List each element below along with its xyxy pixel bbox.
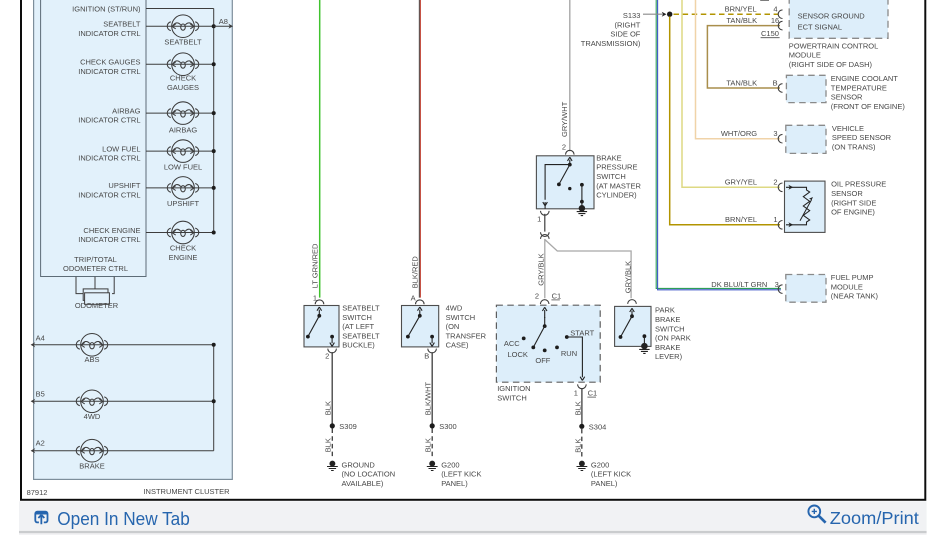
lamp SEATBELT bbox=[167, 15, 199, 38]
svg-text:GROUND: GROUND bbox=[342, 460, 376, 469]
svg-text:1: 1 bbox=[574, 389, 578, 398]
svg-text:B5: B5 bbox=[36, 390, 45, 399]
svg-text:S300: S300 bbox=[439, 422, 457, 431]
node airbag bus junction bbox=[212, 111, 216, 115]
svg-text:LEVER): LEVER) bbox=[655, 352, 683, 361]
wire TAN/BLK PCM pin 16 to ECT sensor pin B bbox=[707, 26, 780, 88]
svg-text:A: A bbox=[411, 293, 416, 302]
instrument cluster box bbox=[34, 0, 233, 479]
svg-text:CHECK GAUGES: CHECK GAUGES bbox=[80, 58, 140, 67]
svg-text:Zoom/Print: Zoom/Print bbox=[830, 508, 919, 528]
inline connector arcs bbox=[541, 232, 550, 239]
lamp ABS bbox=[76, 334, 108, 357]
svg-text:FUEL PUMP: FUEL PUMP bbox=[831, 273, 874, 282]
svg-text:(RIGHT SIDE OF DASH): (RIGHT SIDE OF DASH) bbox=[789, 60, 873, 69]
pin 2 ignition switch and C1 bbox=[535, 291, 561, 300]
wire right bus abs-brake bbox=[213, 345, 215, 451]
wire check gauges row bbox=[146, 63, 214, 65]
wire seatbelt row bbox=[146, 25, 214, 27]
pin A2 input arrow bbox=[31, 439, 45, 454]
svg-text:(AT MASTER: (AT MASTER bbox=[596, 181, 641, 190]
svg-text:MODULE: MODULE bbox=[789, 51, 821, 60]
svg-text:4: 4 bbox=[773, 5, 777, 14]
connector arc seatbelt switch top bbox=[315, 300, 324, 304]
lamp LOW FUEL bbox=[167, 140, 199, 163]
svg-text:PARK: PARK bbox=[655, 306, 675, 315]
wire 4wd row bbox=[32, 400, 214, 402]
svg-text:ACC: ACC bbox=[504, 339, 520, 348]
wire S133 leader arrow bbox=[643, 12, 667, 17]
fuel pump module box bbox=[786, 275, 826, 303]
svg-text:SEATBELT: SEATBELT bbox=[342, 331, 380, 340]
odometer symbol bbox=[76, 277, 114, 305]
svg-text:ENGINE: ENGINE bbox=[169, 253, 198, 262]
wire low fuel row bbox=[146, 150, 214, 152]
svg-text:3: 3 bbox=[775, 280, 779, 289]
label POWERTRAIN CONTROL MODULE (RIGHT SIDE OF DASH) bbox=[789, 41, 878, 69]
label G200 (LEFT KICK PANEL) bbox=[591, 460, 631, 488]
svg-text:ODOMETER CTRL: ODOMETER CTRL bbox=[63, 264, 128, 273]
lamp CHECK ENGINE bbox=[167, 221, 199, 244]
svg-text:C150: C150 bbox=[761, 29, 779, 38]
connector arc oil sensor pin 2 bbox=[778, 183, 782, 192]
case ground brake pressure switch bbox=[577, 206, 587, 216]
label GROUND (NO LOCATION AVAILABLE) bbox=[342, 460, 396, 488]
svg-text:RUN: RUN bbox=[561, 349, 577, 358]
node S300 bbox=[430, 423, 435, 428]
wire GRY/WHT vertical bbox=[569, 0, 571, 151]
svg-text:BRAKE: BRAKE bbox=[79, 461, 104, 470]
park brake switch PARK BRAKE SWITCH bbox=[615, 306, 651, 346]
zoom/print magnifier icon bbox=[808, 506, 825, 523]
svg-text:A8: A8 bbox=[219, 17, 228, 26]
label S133 (RIGHT SIDE OF TRANSMISSION) bbox=[581, 11, 641, 48]
svg-text:2: 2 bbox=[562, 143, 566, 152]
svg-text:S304: S304 bbox=[589, 422, 607, 431]
connector arc VSS pin 3 bbox=[778, 134, 782, 143]
wire GRY/YEL to oil pressure sensor pin 2 bbox=[682, 0, 780, 187]
lamp AIRBAG bbox=[167, 102, 199, 125]
svg-text:A2: A2 bbox=[36, 439, 45, 448]
node abs bus junction bbox=[212, 343, 216, 347]
toolbar bbox=[19, 501, 927, 534]
svg-text:CASE): CASE) bbox=[446, 341, 469, 350]
svg-text:(LEFT KICK: (LEFT KICK bbox=[441, 470, 481, 479]
seatbelt switch SEATBELT SWITCH bbox=[304, 306, 339, 347]
svg-text:GAUGES: GAUGES bbox=[167, 83, 199, 92]
open-in-new-tab icon bbox=[35, 512, 47, 525]
svg-text:ENGINE COOLANT: ENGINE COOLANT bbox=[831, 74, 899, 83]
wire airbag row bbox=[146, 112, 214, 114]
ground G200 left bbox=[427, 461, 438, 470]
svg-text:TRANSFER: TRANSFER bbox=[446, 331, 487, 340]
svg-text:Open In New Tab: Open In New Tab bbox=[57, 508, 190, 529]
connector arc ECT pin B bbox=[778, 84, 782, 93]
instrument cluster controller inner box bbox=[41, 0, 146, 277]
connector arc PCM pin 4 bbox=[778, 10, 782, 19]
svg-text:INDICATOR CTRL: INDICATOR CTRL bbox=[78, 116, 140, 125]
node S309 bbox=[330, 423, 335, 428]
pin B5 input arrow bbox=[31, 390, 45, 404]
svg-text:UPSHIFT: UPSHIFT bbox=[108, 181, 141, 190]
svg-text:BRAKE: BRAKE bbox=[655, 343, 680, 352]
svg-text:TAN/BLK: TAN/BLK bbox=[726, 78, 757, 87]
connector label C150 bbox=[761, 29, 780, 38]
svg-text:CHECK: CHECK bbox=[170, 74, 196, 83]
svg-text:GRY/BLK: GRY/BLK bbox=[537, 253, 546, 285]
svg-text:TEMPERATURE: TEMPERATURE bbox=[831, 83, 887, 92]
svg-text:TAN/BLK: TAN/BLK bbox=[726, 16, 757, 25]
svg-text:WHT/ORG: WHT/ORG bbox=[721, 129, 757, 138]
label FUEL PUMP MODULE (NEAR TANK) bbox=[831, 273, 879, 301]
wire BRN/YEL to oil pressure sensor pin 1 bbox=[670, 17, 780, 225]
svg-text:LT GRN/RED: LT GRN/RED bbox=[311, 243, 320, 288]
svg-text:BLK: BLK bbox=[424, 438, 433, 452]
svg-text:2: 2 bbox=[773, 178, 777, 187]
svg-text:OFF: OFF bbox=[535, 356, 550, 365]
svg-text:C1: C1 bbox=[552, 291, 562, 300]
svg-text:IGNITION: IGNITION bbox=[497, 384, 530, 393]
connector arc oil sensor pin 1 bbox=[778, 221, 782, 230]
brake pressure switch BRAKE PRESSURE SWITCH bbox=[536, 156, 594, 209]
svg-text:(NO LOCATION: (NO LOCATION bbox=[342, 470, 396, 479]
node S133 splice bbox=[667, 12, 672, 17]
svg-text:SWITCH: SWITCH bbox=[342, 313, 372, 322]
wire abs row bbox=[32, 344, 214, 346]
svg-text:CHECK: CHECK bbox=[170, 244, 196, 253]
svg-text:BLK/RED: BLK/RED bbox=[411, 256, 420, 289]
svg-text:4WD: 4WD bbox=[446, 304, 463, 313]
svg-text:(ON PARK: (ON PARK bbox=[655, 334, 691, 343]
svg-text:BRAKE: BRAKE bbox=[655, 315, 680, 324]
oil pressure sensor box bbox=[785, 181, 826, 232]
svg-text:SWITCH: SWITCH bbox=[655, 324, 685, 333]
ignition switch box IGNITION SWITCH bbox=[496, 305, 600, 382]
svg-text:B: B bbox=[424, 352, 429, 361]
lamp 4WD bbox=[76, 390, 108, 413]
svg-text:OIL PRESSURE: OIL PRESSURE bbox=[831, 180, 886, 189]
svg-text:1: 1 bbox=[537, 214, 541, 223]
lamp BRAKE bbox=[76, 439, 108, 462]
svg-text:(FRONT OF ENGINE): (FRONT OF ENGINE) bbox=[831, 102, 906, 111]
svg-text:MODULE: MODULE bbox=[831, 282, 863, 291]
svg-text:GRY/WHT: GRY/WHT bbox=[560, 101, 569, 137]
svg-text:(ON TRANS): (ON TRANS) bbox=[832, 143, 876, 152]
connector arc brake pressure switch top bbox=[566, 150, 575, 154]
node check gauges bus junction bbox=[212, 62, 216, 66]
label IGNITION SWITCH bbox=[497, 384, 530, 402]
lamp CHECK GAUGES bbox=[167, 53, 199, 76]
svg-text:LOCK: LOCK bbox=[507, 350, 527, 359]
svg-text:TRANSMISSION): TRANSMISSION) bbox=[581, 39, 641, 48]
wire upshift row bbox=[146, 187, 214, 189]
lamp UPSHIFT bbox=[167, 177, 199, 200]
wire BLK dashed S300 to ground bbox=[431, 429, 433, 458]
label OIL PRESSURE SENSOR (RIGHT SIDE OF ENGINE) bbox=[831, 180, 886, 217]
svg-text:PANEL): PANEL) bbox=[441, 479, 468, 488]
svg-text:87912: 87912 bbox=[27, 488, 48, 497]
wire check engine row bbox=[146, 232, 214, 234]
node seatbelt bus junction bbox=[212, 24, 216, 28]
wire BLK stub below pin 1 bbox=[544, 214, 546, 232]
svg-text:START: START bbox=[570, 329, 594, 338]
svg-text:SEATBELT: SEATBELT bbox=[103, 20, 141, 29]
powertrain control module box bbox=[789, 0, 888, 38]
svg-text:C1: C1 bbox=[588, 389, 598, 398]
svg-text:BLK/WHT: BLK/WHT bbox=[424, 381, 433, 415]
wire WHT/ORG to VSS pin 3 bbox=[696, 0, 781, 139]
svg-text:PANEL): PANEL) bbox=[591, 479, 618, 488]
svg-text:4WD: 4WD bbox=[84, 412, 101, 421]
wire BLK seatbelt to S309 bbox=[331, 352, 333, 424]
svg-text:UPSHIFT: UPSHIFT bbox=[167, 199, 200, 208]
svg-text:TRIP/TOTAL: TRIP/TOTAL bbox=[74, 255, 117, 264]
4wd switch 4WD SWITCH bbox=[402, 306, 439, 347]
pin A8 output arrow bbox=[214, 17, 233, 29]
svg-text:SWITCH: SWITCH bbox=[446, 313, 476, 322]
vehicle speed sensor box bbox=[786, 125, 826, 153]
label G200 (LEFT KICK PANEL) bbox=[441, 460, 481, 488]
svg-text:LOW FUEL: LOW FUEL bbox=[164, 162, 202, 171]
wire BLK dashed S309 to ground bbox=[331, 429, 333, 458]
svg-text:SENSOR: SENSOR bbox=[831, 189, 863, 198]
label PARK BRAKE SWITCH (ON PARK BRAKE LEVER) bbox=[655, 306, 691, 362]
svg-text:SENSOR: SENSOR bbox=[831, 93, 863, 102]
svg-text:A4: A4 bbox=[36, 333, 45, 342]
svg-text:1: 1 bbox=[773, 215, 777, 224]
svg-text:VEHICLE: VEHICLE bbox=[832, 124, 864, 133]
svg-text:DK BLU/LT GRN: DK BLU/LT GRN bbox=[711, 280, 767, 289]
svg-text:G200: G200 bbox=[441, 460, 459, 469]
svg-text:SENSOR GROUND: SENSOR GROUND bbox=[798, 12, 866, 21]
svg-text:CYLINDER): CYLINDER) bbox=[596, 191, 637, 200]
label SEATBELT SWITCH (AT LEFT SEATBELT BUCKLE) bbox=[342, 304, 380, 350]
svg-text:16: 16 bbox=[771, 16, 779, 25]
svg-text:CHECK ENGINE: CHECK ENGINE bbox=[83, 226, 140, 235]
label 4WD SWITCH (ON TRANSFER CASE) bbox=[446, 304, 487, 350]
svg-text:GRY/BLK: GRY/BLK bbox=[623, 261, 632, 293]
svg-text:ODOMETER: ODOMETER bbox=[75, 301, 119, 310]
svg-text:SEATBELT: SEATBELT bbox=[164, 38, 202, 47]
case ground park brake switch bbox=[639, 343, 649, 353]
connector fragment top edge bbox=[760, 0, 804, 2]
connector arc 4wd switch top bbox=[416, 300, 425, 304]
label VEHICLE SPEED SENSOR (ON TRANS) bbox=[832, 124, 892, 152]
svg-text:INDICATOR CTRL: INDICATOR CTRL bbox=[78, 154, 140, 163]
svg-text:BRN/YEL: BRN/YEL bbox=[725, 5, 757, 14]
svg-text:POWERTRAIN CONTROL: POWERTRAIN CONTROL bbox=[789, 41, 878, 50]
svg-text:SEATBELT: SEATBELT bbox=[342, 304, 380, 313]
node low fuel bus junction bbox=[212, 149, 216, 153]
wire BLK/WHT 4wd to S300 bbox=[431, 352, 433, 424]
svg-text:SWITCH: SWITCH bbox=[596, 172, 626, 181]
wire GRY/BLK to ignition switch bbox=[544, 239, 546, 298]
svg-text:BLK: BLK bbox=[573, 401, 582, 415]
svg-text:BRAKE: BRAKE bbox=[596, 153, 621, 162]
node S304 bbox=[579, 424, 584, 429]
svg-text:LOW FUEL: LOW FUEL bbox=[102, 144, 140, 153]
label BRAKE PRESSURE SWITCH (AT MASTER CYLINDER) bbox=[596, 153, 641, 199]
svg-text:(NEAR TANK): (NEAR TANK) bbox=[831, 292, 879, 301]
svg-text:INDICATOR CTRL: INDICATOR CTRL bbox=[78, 29, 140, 38]
svg-text:SPEED SENSOR: SPEED SENSOR bbox=[832, 133, 892, 142]
label ENGINE COOLANT TEMPERATURE SENSOR (FRONT OF ENGINE) bbox=[831, 74, 906, 111]
node upshift bus junction bbox=[212, 186, 216, 190]
connector arc below brake pressure switch bbox=[541, 211, 550, 215]
ground G (no location) bbox=[327, 461, 338, 470]
connector arc seatbelt switch bottom bbox=[328, 349, 337, 353]
connector arc fuel pump pin 3 bbox=[778, 285, 782, 294]
svg-text:BLK: BLK bbox=[573, 439, 582, 453]
wire BLK dashed S304 to ground bbox=[581, 429, 583, 458]
pin A4 input arrow bbox=[31, 333, 45, 347]
svg-text:IGNITION (ST/RUN): IGNITION (ST/RUN) bbox=[72, 4, 141, 13]
svg-text:AVAILABLE): AVAILABLE) bbox=[342, 479, 384, 488]
svg-text:ECT SIGNAL: ECT SIGNAL bbox=[798, 22, 842, 31]
svg-text:OF ENGINE): OF ENGINE) bbox=[831, 208, 875, 217]
svg-text:GRY/YEL: GRY/YEL bbox=[725, 178, 757, 187]
wire cluster bus vertical bbox=[213, 9, 215, 233]
wire LT GRN/RED vertical bbox=[319, 0, 321, 298]
node check engine bus junction bbox=[212, 231, 216, 235]
node 4wd bus junction bbox=[212, 399, 216, 403]
svg-text:INDICATOR CTRL: INDICATOR CTRL bbox=[78, 235, 140, 244]
wire GRY/BLK branch to park brake switch bbox=[545, 240, 631, 299]
wire DK BLU/LT GRN vertical+horizontal (two-tone) bbox=[656, 0, 781, 290]
svg-text:3: 3 bbox=[773, 129, 777, 138]
svg-text:(AT LEFT: (AT LEFT bbox=[342, 322, 374, 331]
svg-text:BLK: BLK bbox=[324, 401, 333, 415]
svg-text:INDICATOR CTRL: INDICATOR CTRL bbox=[78, 191, 140, 200]
svg-text:ABS: ABS bbox=[84, 355, 99, 364]
connector arc ignition switch top bbox=[540, 300, 549, 304]
svg-text:AIRBAG: AIRBAG bbox=[112, 106, 141, 115]
ground G200 center bbox=[577, 461, 588, 470]
svg-text:BLK: BLK bbox=[324, 438, 333, 452]
wire BLK/RED vertical bbox=[419, 0, 420, 298]
svg-text:S309: S309 bbox=[339, 422, 357, 431]
svg-text:(RIGHT SIDE: (RIGHT SIDE bbox=[831, 198, 876, 207]
svg-text:INDICATOR CTRL: INDICATOR CTRL bbox=[78, 67, 140, 76]
svg-text:S133: S133 bbox=[623, 11, 641, 20]
connector arc ignition switch bottom bbox=[578, 384, 587, 388]
pin 1 ignition switch and C1 bbox=[574, 389, 597, 398]
svg-text:(ON: (ON bbox=[446, 322, 460, 331]
svg-text:INSTRUMENT CLUSTER: INSTRUMENT CLUSTER bbox=[143, 487, 230, 496]
svg-text:B: B bbox=[773, 78, 778, 87]
svg-text:(RIGHT: (RIGHT bbox=[615, 20, 641, 29]
svg-text:2: 2 bbox=[535, 291, 539, 300]
wire BRN/YEL dashed to PCM pin 4 bbox=[674, 13, 779, 15]
connector arc park brake switch top bbox=[628, 300, 637, 304]
svg-text:G200: G200 bbox=[591, 460, 609, 469]
svg-text:BRN/YEL: BRN/YEL bbox=[725, 215, 757, 224]
svg-text:AIRBAG: AIRBAG bbox=[169, 125, 198, 134]
svg-text:SIDE OF: SIDE OF bbox=[610, 30, 640, 39]
wire brake row bbox=[32, 450, 214, 452]
connector arc 4wd switch bottom bbox=[428, 349, 437, 353]
svg-text:PRESSURE: PRESSURE bbox=[596, 163, 637, 172]
wire BLK ignition to S304 bbox=[581, 388, 583, 424]
svg-text:BUCKLE): BUCKLE) bbox=[342, 341, 375, 350]
svg-text:(LEFT KICK: (LEFT KICK bbox=[591, 470, 631, 479]
engine coolant temperature sensor box bbox=[786, 75, 826, 102]
connector arc PCM pin 16 bbox=[778, 21, 782, 30]
svg-text:SWITCH: SWITCH bbox=[497, 394, 527, 403]
wire ignition row bbox=[146, 8, 214, 10]
svg-text:2: 2 bbox=[325, 352, 329, 361]
